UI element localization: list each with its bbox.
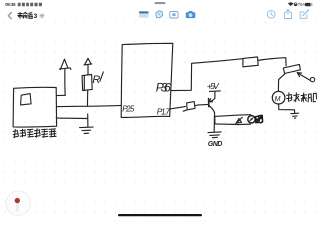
- arrow R1 head: [84, 58, 92, 65]
- home indicator: [118, 214, 202, 216]
- resistor R1 body: [82, 75, 92, 91]
- arrow V1 head: [59, 59, 71, 69]
- wire R3 to Q1 base: [195, 104, 198, 107]
- toolbar icon clock: [267, 10, 275, 18]
- toolbar icon insert: [170, 11, 178, 18]
- resistor R2 body: [243, 57, 258, 67]
- status wifi: [288, 2, 294, 6]
- lamp L1 inner mark: [250, 118, 253, 121]
- pen tool button: [6, 191, 30, 215]
- +5V rail bar: [209, 91, 220, 98]
- wire P1.7 to R3: [170, 107, 186, 109]
- ground G3: [208, 132, 221, 138]
- nav title glyphs: [18, 12, 33, 18]
- svg-text:P3.6: P3.6: [156, 81, 171, 95]
- toolbar icon share: [284, 10, 291, 19]
- wire sensor data to MCU: [57, 105, 122, 106]
- toolbar icon compose: [300, 10, 309, 18]
- transistor Q1 base lead: [198, 103, 208, 106]
- lamp L1 circle: [248, 116, 255, 123]
- wire P3.6 to R2: [171, 59, 243, 91]
- ground G2: [291, 113, 299, 118]
- resistor R1 stem up: [87, 64, 89, 74]
- transistor Q2 terminal circle: [310, 77, 314, 81]
- motor label glyphs: [287, 93, 317, 102]
- top center dash: [155, 2, 166, 4]
- lamp branch left vertical: [214, 117, 216, 124]
- lamp label glyph: [256, 115, 263, 123]
- arrow V1 stem: [64, 69, 66, 95]
- svg-text:R: R: [92, 74, 100, 86]
- transistor Q1 collector: [209, 98, 214, 102]
- sensor inner square: [21, 94, 32, 105]
- svg-text:+5V: +5V: [207, 81, 220, 91]
- resistor R1 stem down: [87, 91, 89, 107]
- toolbar icon pen: [156, 11, 163, 18]
- svg-text:P1.7: P1.7: [157, 107, 171, 116]
- wire sensor ground: [56, 114, 88, 127]
- ground G1: [80, 127, 94, 133]
- lamp branch bottom wire: [215, 123, 251, 126]
- transistor Q2 body: [283, 64, 300, 73]
- status battery icon: [305, 3, 312, 6]
- status bar date blobs: [18, 3, 42, 7]
- transistor Q2 emitter arrow: [297, 73, 310, 81]
- wire motor to ground: [279, 104, 295, 113]
- sensor label glyphs: [13, 129, 56, 138]
- svg-text:09:38: 09:38: [5, 2, 16, 7]
- svg-text:GND: GND: [208, 141, 223, 148]
- diode D1: [235, 117, 242, 124]
- toolbar icon camera: [186, 11, 196, 18]
- transistor Q1 base bar: [208, 99, 210, 107]
- nav title badge: [39, 13, 45, 19]
- motor M1 circle: [272, 91, 285, 104]
- wire R2 to Q2: [258, 58, 286, 66]
- status lock icon: [294, 3, 297, 6]
- resistor R1 label: [92, 72, 103, 86]
- sensor box U2: [13, 87, 57, 127]
- toolbar icon keyboard: [139, 11, 149, 17]
- wire Q2 to motor: [278, 74, 284, 91]
- lamp branch top wire: [215, 115, 251, 117]
- svg-text:3: 3: [34, 13, 38, 20]
- svg-text:P2.5: P2.5: [122, 104, 135, 113]
- MCU box U1: [121, 43, 173, 117]
- svg-text:M: M: [275, 96, 281, 103]
- ground G3 drop: [213, 117, 215, 132]
- transistor Q1 emitter: [209, 106, 215, 117]
- nav back chevron: [8, 13, 11, 19]
- wire box to arrow V1: [57, 94, 66, 96]
- resistor R3 body: [183, 102, 195, 112]
